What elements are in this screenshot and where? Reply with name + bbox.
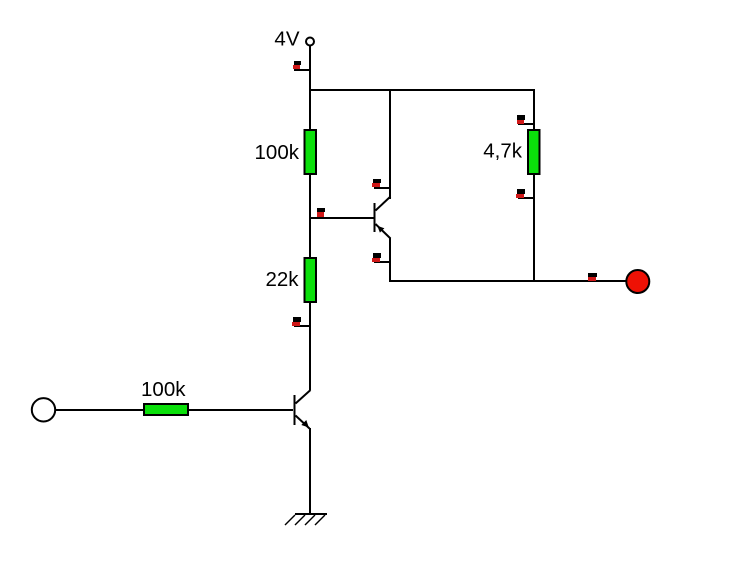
transistor Q2 emitter arrow: [301, 420, 309, 428]
wire R4 to Q2 base: [189, 409, 293, 411]
ground hatch 4: [285, 515, 295, 525]
marker tick collector Q1: [374, 187, 391, 189]
svg-text:4V: 4V: [274, 28, 299, 51]
input terminal: [32, 398, 55, 421]
svg-text:100k: 100k: [255, 141, 300, 164]
marker node base Q1: [317, 208, 325, 212]
marker tick node 4V: [294, 69, 311, 71]
marker node 4V: [294, 61, 301, 65]
wire input to R4: [56, 409, 143, 411]
wire terminal to R1 top: [309, 46, 311, 130]
marker below R2: [293, 317, 301, 322]
marker tick R3 bottom: [518, 197, 535, 199]
marker R3 bottom: [517, 189, 525, 194]
marker tick below R2: [294, 325, 311, 327]
resistor R1 100k: [304, 129, 318, 175]
wire R2 bottom to Q2 collector: [309, 303, 311, 390]
transistor Q1 PNP base bar: [374, 203, 376, 232]
wire R1 bottom to R2 top: [309, 175, 311, 257]
ground hatch 1: [315, 515, 325, 525]
transistor Q2 NPN base bar: [294, 395, 296, 425]
marker emitter Q1: [373, 253, 381, 258]
wire R3 bottom down: [533, 175, 535, 281]
wire emitter Q1 down: [389, 238, 391, 281]
ground bar: [295, 513, 327, 515]
marker tick emitter Q1: [374, 261, 391, 263]
svg-text:100k: 100k: [141, 378, 186, 401]
resistor R3 4,7k: [527, 129, 541, 175]
marker R3 top: [517, 115, 525, 120]
transistor Q2 emitter diagonal: [296, 416, 310, 429]
transistor Q2 collector diagonal: [296, 390, 311, 404]
resistor R2 22k: [304, 257, 318, 303]
terminal 4V: [306, 38, 314, 46]
resistor R4 100k horizontal: [143, 403, 189, 416]
wire right branch to R3 top: [533, 91, 535, 130]
transistor Q1 emitter arrow: [377, 226, 384, 233]
transistor Q1 emitter diagonal: [376, 224, 391, 239]
ground hatch 2: [305, 515, 315, 525]
wire collector branch vertical: [389, 91, 391, 199]
ground hatch 3: [295, 515, 305, 525]
transistor Q1 collector diagonal: [376, 197, 391, 211]
LED indicator: [626, 270, 649, 293]
marker tick R3 top: [518, 123, 535, 125]
svg-text:22k: 22k: [265, 268, 299, 291]
marker collector Q1: [373, 179, 381, 183]
marker on output wire: [588, 273, 597, 277]
wire Q2 emitter to ground: [309, 428, 311, 513]
svg-text:4,7k: 4,7k: [483, 140, 522, 163]
wire base Q1: [311, 217, 374, 219]
wire top bus: [309, 89, 535, 91]
wire output horizontal: [389, 280, 626, 282]
